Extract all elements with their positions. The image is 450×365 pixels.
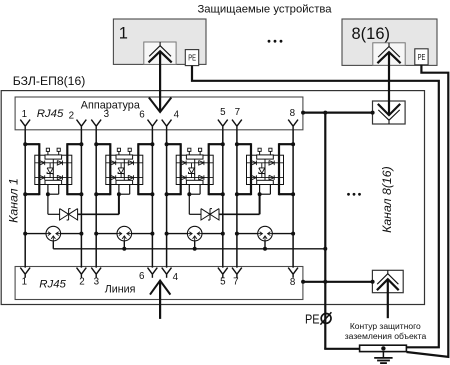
junction (cell 1 L arrester)	[23, 232, 27, 236]
gas discharge arrester FV3	[187, 226, 202, 241]
wire: right pair conductor cell 3	[222, 130, 224, 268]
diode array U4 body	[247, 155, 284, 184]
junction: output arrester box edge	[371, 280, 375, 284]
diode array U2 bottom terminal bar	[116, 180, 133, 184]
wire: block reference stubs (cell 2)	[119, 185, 130, 195]
pin label 5 (bottom)	[220, 277, 226, 288]
wire: top tap right (cell 3)	[209, 143, 223, 145]
junction: riser crossing bottom	[323, 280, 327, 284]
svg-text:Контур защитного: Контур защитного	[350, 321, 421, 331]
wire: top tap left (cell 4)	[237, 143, 251, 145]
wire: arrester FV3 ground stem	[194, 241, 196, 249]
RJ45 connector strip Линия (bottom)	[15, 267, 303, 300]
wire: right rail (cell 3)	[208, 143, 210, 195]
junction (cell 2 R arrester)	[150, 232, 154, 236]
svg-text:2: 2	[69, 111, 74, 122]
wire: top tap left (cell 2)	[96, 143, 110, 145]
wire: VD2 (cell3-cell4) right lead	[219, 194, 260, 214]
pin label 6 (bottom)	[139, 271, 145, 282]
wire: top tap right (cell 1)	[67, 143, 81, 145]
svg-text:заземления объекта: заземления объекта	[345, 331, 427, 341]
svg-text:Канал 8(16): Канал 8(16)	[380, 166, 394, 233]
wire: top tap left (cell 3)	[167, 143, 181, 145]
pin label 7 (top)	[235, 107, 240, 118]
junction: reference node cell 1	[46, 192, 50, 196]
svg-text:4: 4	[173, 272, 179, 283]
wire: top tap right (cell 4)	[279, 143, 293, 145]
diode top-right (U3)	[199, 161, 204, 166]
wire: bottom tap right (cell 2)	[138, 193, 152, 195]
wire: bottom tap right (cell 1)	[67, 193, 81, 195]
wire: block reference stubs (cell 1)	[48, 185, 59, 195]
pin label 3 (bottom)	[94, 277, 100, 288]
wire: arrester row (cell 2)	[96, 233, 152, 235]
top strip pin symbol (cell 3 left)	[162, 120, 172, 130]
svg-text:5: 5	[220, 277, 226, 288]
gas discharge arrester FV1	[46, 226, 61, 241]
arrow: Линия port to line (bottom)	[150, 281, 170, 319]
pin label 1 (bottom)	[22, 277, 27, 288]
zener diode (U3 center)	[189, 163, 195, 178]
wire: bottom tap right (cell 4)	[279, 193, 293, 195]
wire: bottom tap left (cell 1)	[25, 193, 39, 195]
diode bottom-right (U3)	[199, 175, 204, 180]
diode top-left (U4)	[251, 161, 256, 166]
wire: riser to earth bar	[324, 348, 359, 350]
label Аппаратура	[81, 100, 140, 112]
diode array U1 center bus	[52, 159, 54, 180]
diode array U4 top terminal bar	[257, 155, 274, 159]
junction (cell 3 L top)	[165, 142, 169, 146]
bottom strip pin symbol (cell 3 right)	[218, 268, 228, 278]
diode top-right (U2)	[128, 161, 133, 166]
svg-text:2: 2	[79, 277, 84, 288]
wire: block reference stubs (cell 3)	[189, 185, 200, 195]
wire: right pair conductor cell 2	[151, 130, 153, 268]
wire: left pair conductor cell 2	[95, 130, 97, 268]
wire: VD1 (cell1-cell2) right lead	[78, 194, 119, 214]
label PE (earth conductor)	[305, 311, 320, 326]
wire: device 8(16) to input arrester box	[388, 52, 390, 115]
bottom strip pin symbol (cell 4 right)	[288, 268, 298, 278]
bottom strip pin symbol (cell 4 left)	[232, 268, 242, 278]
wire: ground riser (PE)	[324, 113, 326, 349]
diode array U3 top pin right	[199, 148, 202, 155]
diode array U3 body	[176, 155, 213, 184]
output surge arrester box (bottom right)	[372, 270, 403, 292]
top strip pin symbol (cell 4 left)	[232, 120, 242, 130]
zener diode (U4 center)	[259, 163, 265, 178]
junction: bottom strip shield	[301, 280, 305, 284]
pin label 1 (top)	[22, 109, 27, 120]
device 8(16) up-arrow symbol	[377, 43, 400, 63]
pin label 4 (top)	[174, 110, 180, 121]
wire: PE from device 1 to earth bar	[192, 66, 439, 348]
wire: arrester row (cell 4)	[237, 233, 293, 235]
diode bottom-left (U2)	[111, 175, 116, 180]
wire: left rail (cell 1)	[38, 143, 40, 195]
wire: top tap left (cell 1)	[25, 143, 39, 145]
diode array U4 center bus	[264, 159, 266, 180]
ground symbol	[374, 352, 392, 364]
device 1 PE label	[188, 54, 196, 63]
gas discharge arrester FV2	[117, 226, 132, 241]
wire: left rail (cell 2)	[109, 143, 111, 195]
bottom strip pin symbol (cell 1 left)	[20, 268, 30, 278]
svg-text:Канал 1: Канал 1	[7, 178, 21, 223]
diode array U4 top pin left	[258, 148, 261, 155]
protected device 8(16) box	[342, 19, 437, 65]
zener diode (U2 center)	[118, 163, 124, 178]
main unit БЗЛ-ЕП8(16) enclosure	[1, 91, 424, 305]
wire: top tap right (cell 2)	[138, 143, 152, 145]
junction: input arrester box edge	[371, 111, 375, 115]
junction (cell 2 L arrester)	[94, 232, 98, 236]
wire: bottom tap right (cell 3)	[209, 193, 223, 195]
svg-text:RJ45: RJ45	[37, 108, 64, 120]
wire: arrester FV4 ground stem	[264, 241, 266, 249]
junction (cell 4 L bottom)	[235, 192, 239, 196]
pin label 4 (bottom)	[173, 272, 179, 283]
diode array U3 center bus	[194, 159, 196, 180]
svg-text:7: 7	[235, 107, 240, 118]
junction (cell 1 R bottom)	[79, 192, 83, 196]
wire: VD2 (cell3-cell4) left lead	[189, 194, 201, 214]
junction (cell 3 L bottom)	[165, 192, 169, 196]
label Линия	[105, 284, 136, 296]
svg-text:1: 1	[119, 25, 128, 43]
svg-text:8: 8	[290, 108, 296, 119]
junction (cell 1 R arrester)	[79, 232, 83, 236]
diode array U3 bottom terminal bar	[186, 180, 203, 184]
label RJ45 (bottom strip)	[39, 278, 66, 290]
svg-text:6: 6	[139, 271, 145, 282]
device 1 PE terminal box	[185, 50, 198, 66]
diode bottom-left (U1)	[40, 175, 45, 180]
wire: PE from device 8(16) to earth bar	[407, 65, 449, 357]
junction (cell 1 L bottom)	[23, 192, 27, 196]
svg-text:Линия: Линия	[105, 284, 136, 296]
svg-text:PE: PE	[305, 311, 320, 326]
wire: right rail (cell 1)	[66, 143, 68, 195]
diode row wires (U4)	[247, 163, 284, 178]
output arrester up-arrow symbol	[377, 270, 399, 290]
svg-text:7: 7	[233, 277, 238, 288]
wire: left rail (cell 4)	[250, 143, 252, 195]
wire: arrester row (cell 3)	[167, 233, 223, 235]
diode top-right (U4)	[269, 161, 274, 166]
junction: FV3 bus	[193, 247, 197, 251]
junction (cell 2 L bottom)	[94, 192, 98, 196]
wire: VD1 (cell1-cell2) left lead	[48, 194, 60, 214]
label: Контур защитного заземления объекта	[345, 321, 427, 341]
diode bottom-left (U4)	[251, 175, 256, 180]
wire: right pair conductor cell 1	[80, 130, 82, 268]
diode array U1 bottom terminal bar	[45, 180, 62, 184]
svg-text:БЗЛ-ЕП8(16): БЗЛ-ЕП8(16)	[13, 74, 85, 88]
device 1 up-arrow symbol	[149, 42, 172, 62]
earth bar (Контур заземления)	[360, 345, 407, 351]
junction (cell 1 L top)	[23, 142, 27, 146]
pin label 6 (top)	[139, 110, 145, 121]
svg-text:PE: PE	[188, 54, 196, 63]
svg-text:8: 8	[290, 277, 296, 288]
bottom strip pin symbol (cell 2 right)	[148, 268, 158, 278]
junction: ground riser top	[323, 111, 327, 115]
top strip pin symbol (cell 2 right)	[148, 120, 158, 130]
diode array U1 body	[35, 155, 72, 184]
diode row wires (U1)	[35, 163, 72, 178]
junction (cell 4 R top)	[291, 142, 295, 146]
ellipsis between devices	[268, 40, 283, 43]
wire: arrester row (cell 1)	[25, 233, 81, 235]
bottom strip pin symbol (cell 2 left)	[91, 268, 101, 278]
pin label 8 (bottom)	[290, 277, 296, 288]
pin label 2 (bottom)	[79, 277, 84, 288]
label Канал 1 (rotated)	[7, 178, 21, 223]
wire: left pair conductor cell 4	[236, 130, 238, 268]
junction: top strip shield	[301, 111, 305, 115]
wire: bottom tap left (cell 4)	[237, 193, 251, 195]
pin label 8 (top)	[290, 108, 296, 119]
svg-text:3: 3	[104, 109, 110, 120]
junction (cell 4 L top)	[235, 142, 239, 146]
junction (cell 2 R top)	[150, 142, 154, 146]
svg-text:1: 1	[22, 277, 27, 288]
device 8(16) PE label	[418, 53, 426, 62]
wire: output arrester toward earth bar	[387, 279, 389, 318]
top strip pin symbol (cell 1 left)	[20, 120, 30, 130]
junction (cell 3 R arrester)	[221, 232, 225, 236]
diode top-left (U1)	[40, 161, 45, 166]
wire: arrester FV2 ground stem	[123, 241, 125, 249]
device 8(16) PE terminal box	[415, 49, 428, 65]
diode array U2 center bus	[123, 159, 125, 180]
top strip pin symbol (cell 2 left)	[91, 120, 101, 130]
wire: top strip shield to input arrester	[303, 111, 373, 113]
diode array U1 top pin left	[46, 148, 49, 155]
device 1 equipment-port box	[144, 42, 176, 64]
pin label 2 (top)	[69, 111, 74, 122]
junction: reference node cell 2	[117, 192, 121, 196]
svg-text:RJ45: RJ45	[39, 278, 66, 290]
device 8(16) label	[352, 25, 391, 43]
label RJ45 (top strip)	[37, 108, 64, 120]
junction (cell 3 R bottom)	[221, 192, 225, 196]
junction: arrester bus to riser	[323, 247, 327, 251]
wire: bottom tap left (cell 2)	[96, 193, 110, 195]
RJ45 connector strip Аппаратура (top)	[15, 97, 303, 130]
junction: FV4 bus	[263, 247, 267, 251]
junction: reference node cell 4	[258, 192, 262, 196]
wire: arrester FV1 ground stem	[52, 241, 54, 249]
wire: left pair conductor cell 3	[166, 130, 168, 268]
bottom strip pin symbol (cell 3 left)	[162, 268, 172, 278]
wire: block reference stubs (cell 4)	[260, 185, 271, 195]
wire: right rail (cell 2)	[137, 143, 139, 195]
pin label 5 (top)	[220, 107, 226, 118]
label БЗЛ-ЕП8(16)	[13, 74, 85, 88]
wire: bottom strip shield to output arrester	[303, 281, 373, 283]
junction: earth bar	[381, 346, 385, 350]
device 8(16) equipment-port box	[373, 43, 405, 66]
earth conductor marker Ø	[320, 312, 331, 324]
diode array U4 top pin right	[269, 148, 272, 155]
junction (cell 3 L arrester)	[165, 232, 169, 236]
junction (cell 2 R bottom)	[150, 192, 154, 196]
diode array U2 top pin left	[117, 148, 120, 155]
TVS suppressor VD2 (cell3-cell4)	[201, 209, 219, 220]
diode row wires (U3)	[176, 163, 213, 178]
junction (cell 4 L arrester)	[235, 232, 239, 236]
gas discharge arrester FV4	[258, 226, 273, 241]
input arrester down-arrow symbol	[378, 104, 400, 124]
diode array U2 top terminal bar	[116, 155, 133, 159]
diode top-left (U2)	[111, 161, 116, 166]
diode row wires (U2)	[106, 163, 143, 178]
zener diode (U1 center)	[47, 163, 53, 178]
pin label 7 (bottom)	[233, 277, 238, 288]
label Канал 8(16) (rotated)	[380, 166, 394, 233]
diode bottom-left (U3)	[181, 175, 186, 180]
junction (cell 1 R top)	[79, 142, 83, 146]
junction (cell 2 L top)	[94, 142, 98, 146]
junction (cell 4 R bottom)	[291, 192, 295, 196]
diode array U2 body	[106, 155, 143, 184]
input surge arrester box (top right)	[373, 101, 406, 124]
diode array U3 top pin left	[188, 148, 191, 155]
junction (cell 3 R top)	[221, 142, 225, 146]
wire: bottom tap left (cell 3)	[167, 193, 181, 195]
diode array U1 top pin right	[57, 148, 60, 155]
diode bottom-right (U2)	[128, 175, 133, 180]
wire: arrester ground bus	[53, 248, 325, 250]
svg-text:Аппаратура: Аппаратура	[81, 100, 140, 112]
ellipsis between channels	[347, 193, 361, 196]
bottom strip pin symbol (cell 1 right)	[77, 268, 87, 278]
svg-text:1: 1	[22, 109, 27, 120]
svg-text:3: 3	[94, 277, 100, 288]
arrow: device 1 to Аппаратура port	[149, 51, 171, 112]
svg-text:4: 4	[174, 110, 180, 121]
diode top-right (U1)	[57, 161, 62, 166]
diode bottom-right (U1)	[57, 175, 62, 180]
svg-text:5: 5	[220, 107, 226, 118]
svg-text:8(16): 8(16)	[352, 25, 391, 43]
top strip pin symbol (cell 3 right)	[218, 120, 228, 130]
protected device 1 box	[113, 19, 206, 64]
junction (cell 4 R arrester)	[291, 232, 295, 236]
diode array U1 top terminal bar	[45, 155, 62, 159]
pin label 3 (top)	[104, 109, 110, 120]
wire: right pair conductor cell 4	[292, 130, 294, 268]
wire: left rail (cell 3)	[180, 143, 182, 195]
junction: reference node cell 3	[187, 192, 191, 196]
wire: left pair conductor cell 1	[24, 130, 26, 268]
device 1 label	[119, 25, 128, 43]
diode bottom-right (U4)	[269, 175, 274, 180]
svg-text:6: 6	[139, 110, 145, 121]
wire: right rail (cell 4)	[278, 143, 280, 195]
svg-text:PE: PE	[418, 53, 426, 62]
diode top-left (U3)	[181, 161, 186, 166]
diode array U3 top terminal bar	[186, 155, 203, 159]
diode array U2 top pin right	[128, 148, 131, 155]
TVS suppressor VD1 (cell1-cell2)	[60, 209, 78, 220]
svg-text:Защищаемые устройства: Защищаемые устройства	[197, 4, 332, 16]
top strip pin symbol (cell 1 right)	[77, 120, 87, 130]
title: Защищаемые устройства	[197, 4, 332, 16]
junction: FV2 bus	[122, 247, 126, 251]
top strip pin symbol (cell 4 right)	[288, 120, 298, 130]
diode array U4 bottom terminal bar	[257, 180, 274, 184]
